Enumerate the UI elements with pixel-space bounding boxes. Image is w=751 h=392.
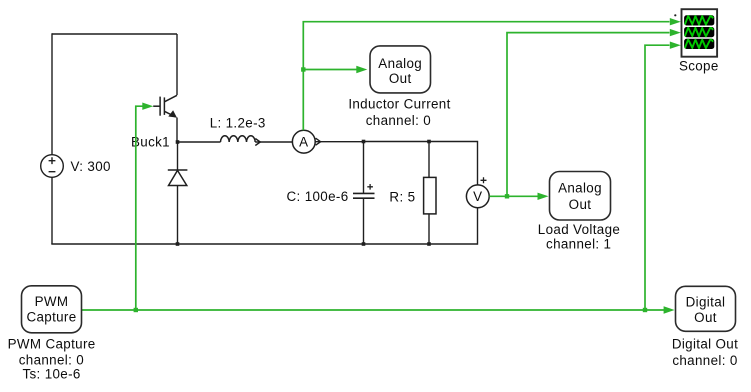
wire PWM output horizontal [82, 309, 665, 311]
svg-text:Buck1: Buck1 [131, 135, 170, 150]
arrowhead into Analog Out 2 [538, 193, 549, 200]
svg-text:Digital Out: Digital Out [672, 336, 738, 351]
wire ammeter current signal [303, 22, 669, 131]
wire switch node to inductor [178, 141, 221, 143]
svg-text:C: 100e-6: C: 100e-6 [287, 189, 349, 204]
scope screen 3 [684, 39, 714, 49]
junction: scope tap on PWM line [643, 308, 647, 312]
svg-text:Out: Out [389, 71, 412, 86]
node: resistor bottom junction [427, 242, 431, 246]
inductor wire chevron arrow [255, 139, 260, 146]
wire capacitor top [363, 142, 365, 194]
scope screen 2 [684, 27, 714, 37]
node: switch node junction [176, 140, 180, 144]
node: capacitor bottom junction [362, 242, 366, 246]
block Analog Out U1 [370, 46, 431, 93]
wire left vertical upper [51, 33, 53, 154]
wire ammeter to cap node [315, 141, 363, 143]
wire inductor to ammeter [255, 141, 292, 143]
wire inductor-current tap to Analog Out [303, 69, 357, 71]
svg-text:Capture: Capture [26, 310, 76, 325]
arrowhead scope input 1 [670, 18, 681, 25]
svg-text:channel: 0: channel: 0 [672, 353, 737, 368]
arrowhead into Analog Out 1 [356, 66, 367, 73]
svg-text:Ts: 10e-6: Ts: 10e-6 [22, 366, 80, 381]
wire diode top [177, 142, 179, 170]
scope waveform 3 [684, 39, 713, 50]
svg-text:A: A [299, 134, 308, 149]
scope waveform 1 [684, 16, 713, 27]
wire cap node to resistor node [364, 141, 430, 143]
svg-text:L: 1.2e-3: L: 1.2e-3 [210, 115, 266, 130]
wire left vertical lower [51, 178, 53, 245]
wire top rail (source to collector) [52, 33, 177, 35]
ammeter A1 [292, 130, 315, 153]
gate arrowhead [142, 103, 153, 110]
junction: gate tap on PWM line [134, 308, 138, 312]
ammeter output chevron arrow [316, 138, 321, 145]
wire voltmeter bottom [477, 208, 479, 245]
wire diode bottom [177, 186, 179, 245]
wire load-voltage tap up to scope [507, 33, 670, 197]
voltage source V1 [41, 155, 64, 178]
block PWM Capture U3 [22, 286, 82, 333]
svg-text:channel: 0: channel: 0 [19, 352, 84, 367]
node: resistor top junction [427, 140, 431, 144]
transistor Buck1 (IGBT) [153, 95, 177, 117]
svg-text:V: V [473, 189, 482, 204]
junction: load-voltage tap [505, 194, 509, 198]
svg-text:Inductor Current: Inductor Current [348, 97, 450, 112]
scope stray dot [674, 14, 676, 16]
inductor L1 [221, 136, 256, 142]
svg-text:R: 5: R: 5 [389, 190, 415, 205]
wire gate signal vertical [136, 106, 143, 310]
svg-text:Analog: Analog [558, 181, 602, 196]
svg-text:Load Voltage: Load Voltage [538, 222, 620, 237]
block Digital Out U4 [676, 286, 736, 331]
svg-text:PWM: PWM [35, 294, 69, 309]
wire PWM tap up to scope [645, 45, 670, 310]
node: capacitor top junction [362, 140, 366, 144]
arrowhead into Digital Out [664, 306, 675, 313]
voltmeter V2 [466, 185, 489, 208]
wire collector vertical [176, 34, 178, 95]
svg-text:channel: 0: channel: 0 [366, 113, 431, 128]
wire resistor top [428, 142, 430, 178]
svg-text:Scope: Scope [679, 58, 719, 73]
svg-text:Analog: Analog [378, 56, 422, 71]
scope waveform 2 [684, 27, 713, 38]
scope screen 1 [684, 15, 714, 25]
svg-text:Digital: Digital [686, 295, 726, 310]
wire resistor bottom [428, 214, 430, 244]
junction: inductor-current tap [301, 67, 305, 71]
resistor R1 [424, 177, 436, 214]
capacitor C1 [353, 193, 375, 198]
svg-text:channel: 1: channel: 1 [546, 237, 611, 252]
arrowhead scope input 2 [670, 29, 681, 36]
svg-text:Out: Out [569, 197, 592, 212]
node: diode bottom junction [176, 242, 180, 246]
wire resistor node to voltmeter corner [429, 142, 478, 185]
diode D1 [168, 170, 188, 186]
svg-text:V: 300: V: 300 [71, 159, 111, 174]
svg-text:Out: Out [694, 310, 717, 325]
wire emitter vertical [176, 118, 178, 143]
wire capacitor bottom [363, 198, 365, 244]
wire voltmeter signal [489, 195, 538, 197]
transistor emitter arrowhead [168, 110, 177, 117]
arrowhead scope input 3 [670, 42, 681, 49]
voltmeter plus sign [481, 177, 487, 183]
wire bottom rail [51, 243, 477, 245]
capacitor plus sign [367, 184, 373, 190]
svg-text:PWM Capture: PWM Capture [8, 336, 96, 351]
block Analog Out U2 [550, 172, 611, 221]
scope block U5 [682, 9, 718, 57]
